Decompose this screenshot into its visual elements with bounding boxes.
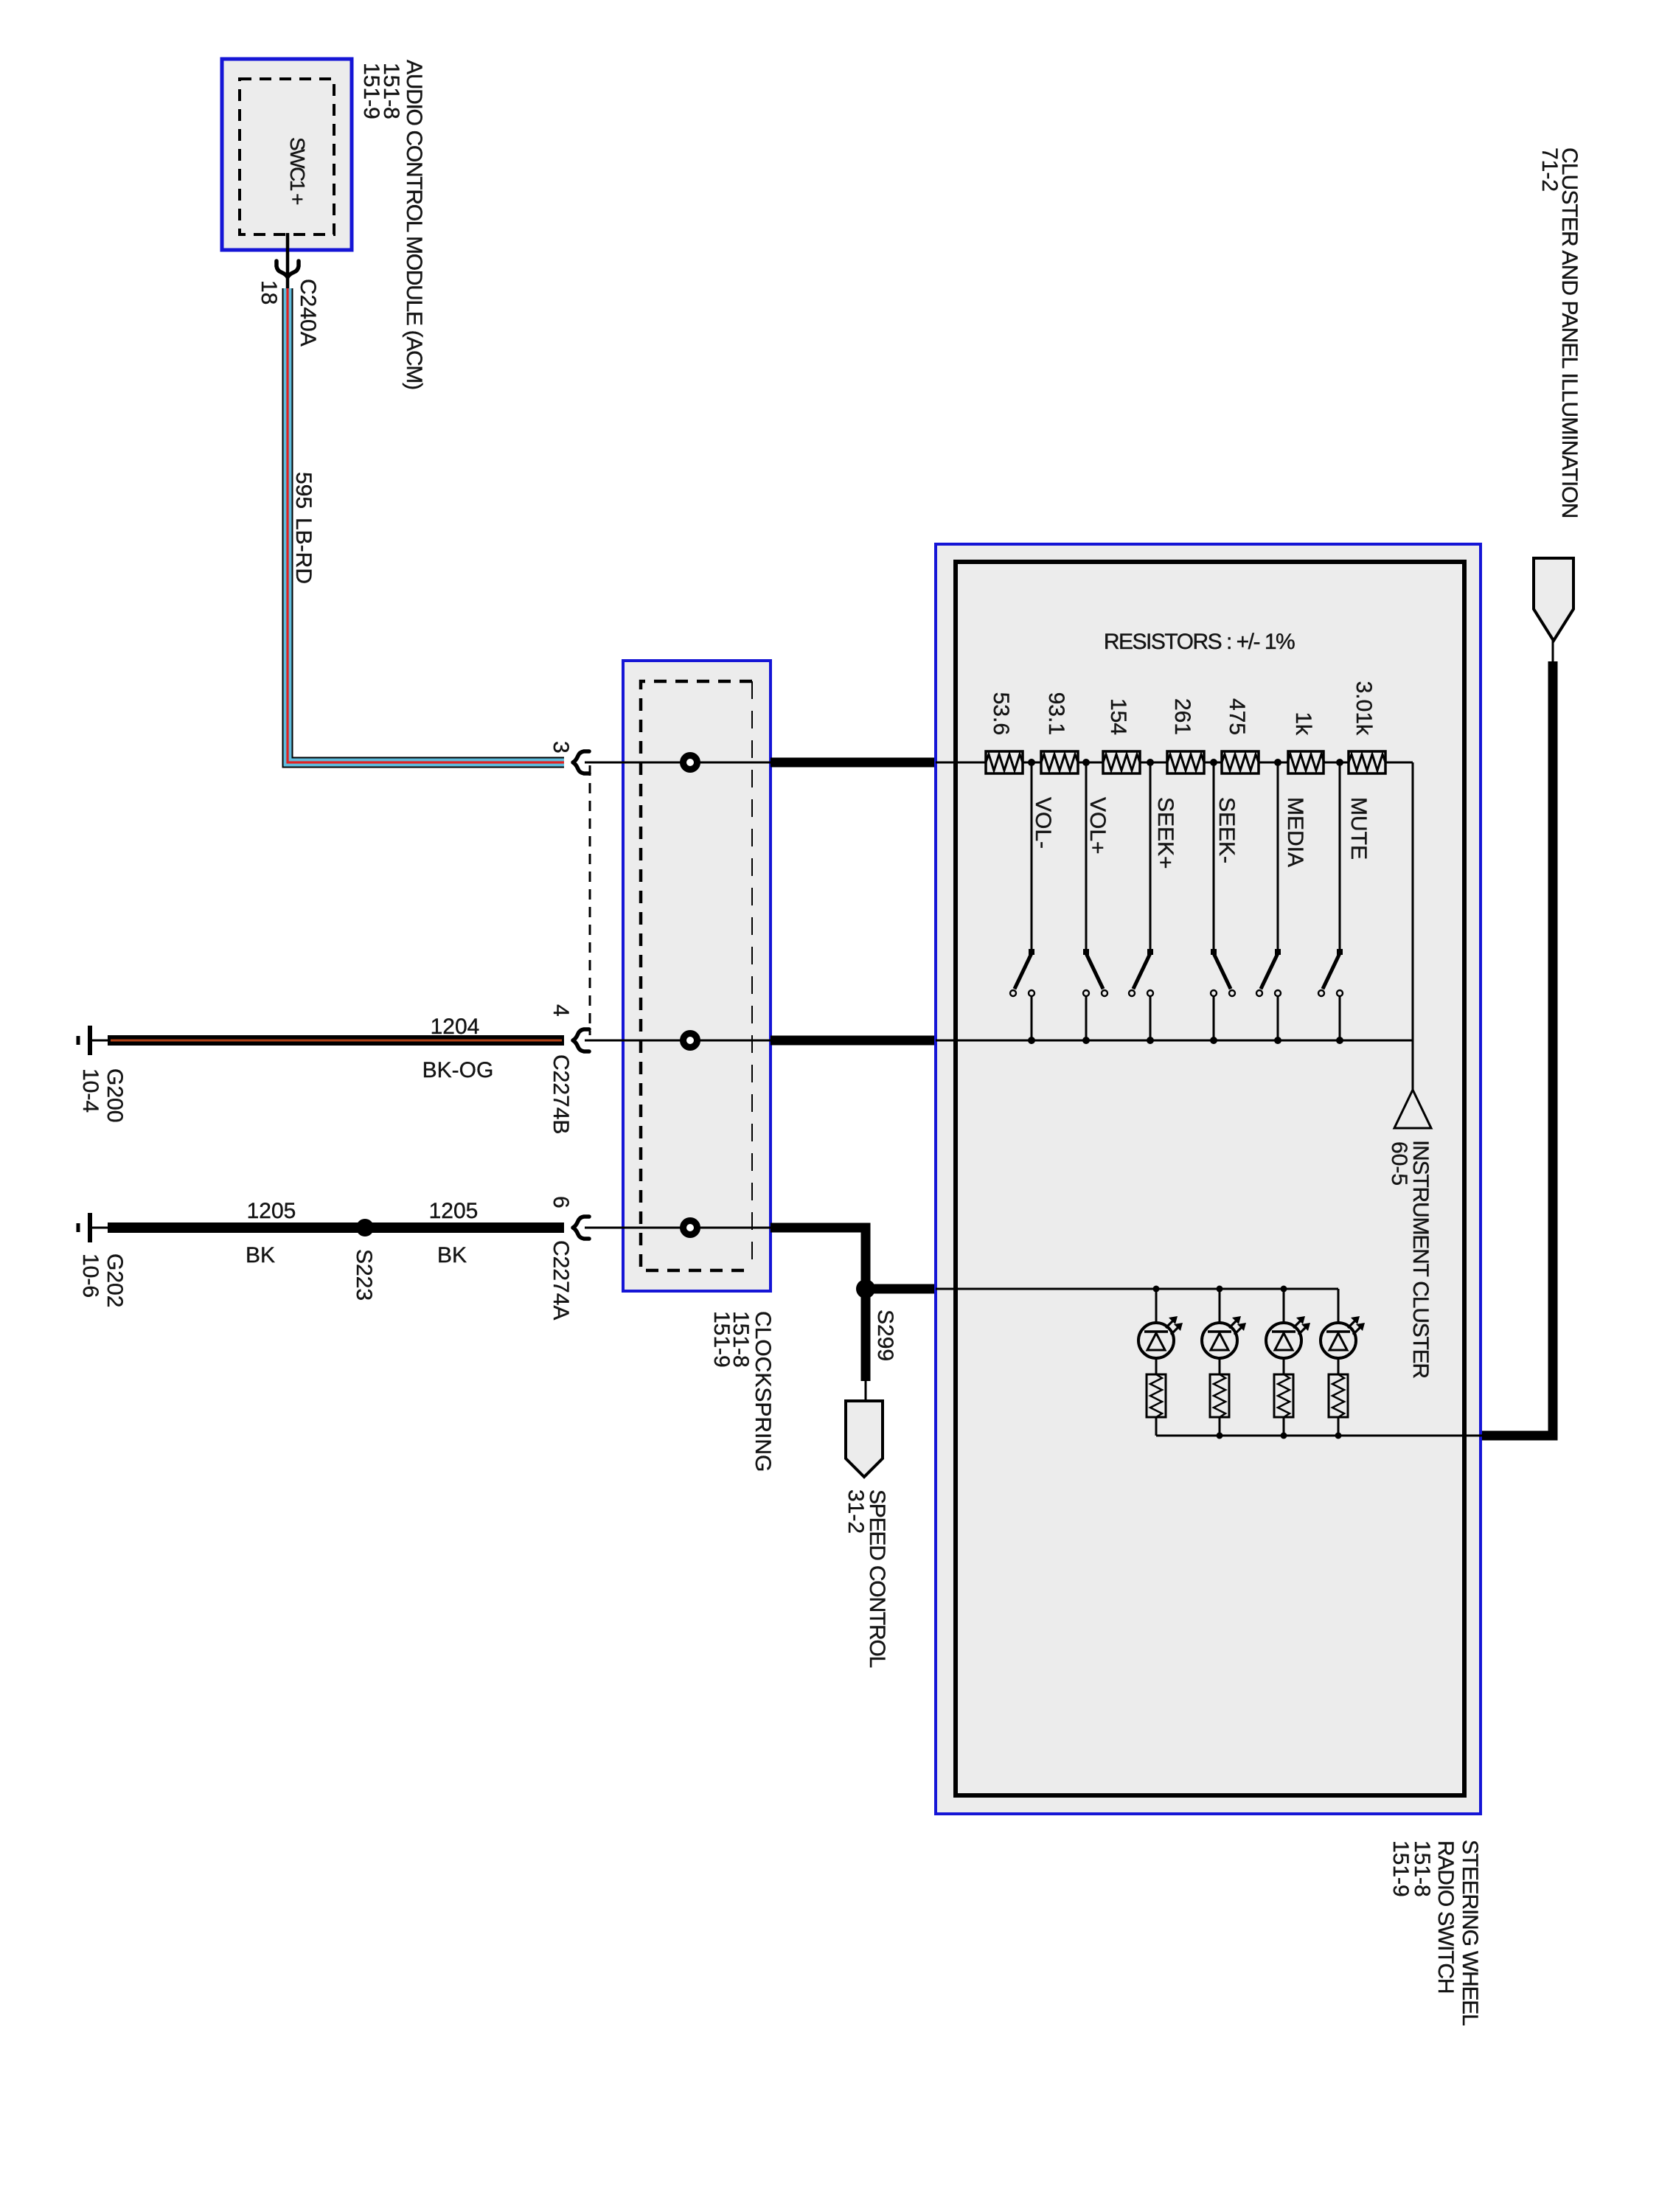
wire resistor chain top rail: [936, 762, 1413, 764]
off-page connector SPEED CONTROL: [846, 1401, 883, 1477]
wire bottom rail: [936, 1040, 1413, 1042]
steering wheel radio switch outer box: [936, 544, 1481, 1814]
svg-text:151-9: 151-9: [709, 1311, 734, 1368]
node LED rail junction: [1153, 1286, 1160, 1293]
resistor 53.6: [986, 751, 1023, 773]
ACM inner dashed connector box: [240, 79, 334, 234]
svg-text:SWC1 +: SWC1 +: [286, 137, 309, 204]
LED 4: [1321, 1289, 1365, 1374]
node LED rail junction: [1281, 1286, 1287, 1293]
clockspring box: [623, 661, 771, 1291]
svg-text:CLOCKSPRING: CLOCKSPRING: [751, 1311, 775, 1472]
clockspring contact bullet pin3: [684, 756, 698, 770]
svg-text:1205: 1205: [247, 1199, 296, 1223]
svg-text:1205: 1205: [429, 1199, 479, 1223]
dashed connector link line: [589, 765, 591, 1035]
svg-text:10-6: 10-6: [78, 1253, 102, 1298]
splice S299: [856, 1279, 875, 1298]
svg-text:STEERING WHEEL: STEERING WHEEL: [1458, 1840, 1482, 2025]
svg-text:S223: S223: [352, 1249, 376, 1301]
svg-text:1204: 1204: [431, 1015, 480, 1039]
svg-text:C240A: C240A: [296, 279, 320, 347]
wire pin4 thin segment into clockspring: [585, 1040, 773, 1042]
wire thick to cluster illumination: [1482, 661, 1553, 1436]
svg-text:MEDIA: MEDIA: [1283, 797, 1307, 867]
wire 595 LB-RD: [288, 288, 564, 762]
svg-text:261: 261: [1170, 698, 1194, 735]
svg-text:475: 475: [1225, 698, 1249, 735]
svg-text:AUDIO CONTROL MODULE (ACM): AUDIO CONTROL MODULE (ACM): [402, 60, 426, 389]
wire stub from ACM: [286, 233, 290, 288]
svg-text:53.6: 53.6: [989, 692, 1013, 735]
instrument cluster triangle: [1394, 1090, 1431, 1128]
wire 1204 BK-OG: [108, 1035, 564, 1046]
svg-text:VOL-: VOL-: [1031, 797, 1055, 849]
LED 3: [1266, 1289, 1310, 1374]
svg-text:RESISTORS : +/- 1%: RESISTORS : +/- 1%: [1104, 630, 1295, 654]
wire from S299 to radio switch: [866, 1284, 936, 1294]
ground G200: [78, 1026, 109, 1055]
svg-text:151-9: 151-9: [1388, 1840, 1413, 1897]
wire pin4 thick segment to radio switch: [771, 1036, 936, 1046]
node LED bottom junction: [1335, 1433, 1342, 1439]
switch SEEK-: [1210, 762, 1235, 1044]
svg-text:3.01k: 3.01k: [1352, 681, 1376, 736]
wire pin6 thick segment with corner down to S299: [771, 1228, 866, 1289]
wire pin6 thin segment into clockspring: [585, 1227, 773, 1229]
svg-text:BK: BK: [246, 1243, 275, 1267]
node tap 1: [1028, 759, 1035, 766]
resistor LED2: [1210, 1374, 1229, 1436]
off-page connector CLUSTER AND PANEL ILLUMINATION: [1534, 558, 1573, 641]
svg-text:595: 595: [291, 472, 316, 509]
module ACM box: [222, 59, 352, 250]
node LED bottom junction: [1281, 1433, 1287, 1439]
svg-text:RADIO SWITCH: RADIO SWITCH: [1433, 1840, 1458, 1993]
switch VOL+: [1082, 762, 1107, 1044]
clockspring inner dashed box: [641, 681, 752, 1270]
connector pin 4 brace: [573, 1029, 589, 1051]
svg-text:60-5: 60-5: [1387, 1141, 1411, 1186]
node LED rail junction: [1217, 1286, 1223, 1293]
switch SEEK+: [1129, 762, 1154, 1044]
wire LED bottom rail: [1156, 1435, 1484, 1437]
svg-text:SEEK-: SEEK-: [1214, 797, 1239, 863]
svg-text:C2274B: C2274B: [549, 1054, 573, 1134]
connector pin 3 brace: [573, 751, 589, 773]
node tap 3: [1147, 759, 1154, 766]
resistor 93.1: [1041, 751, 1078, 773]
connector pin 6 brace: [573, 1217, 589, 1239]
svg-text:3: 3: [549, 741, 573, 754]
wire right branch down to instrument cluster: [1412, 762, 1414, 1090]
svg-text:1k: 1k: [1291, 712, 1315, 736]
wire pin3 thin segment into clockspring: [585, 762, 773, 764]
svg-text:BK: BK: [437, 1243, 467, 1267]
node tap 2: [1082, 759, 1090, 766]
svg-text:6: 6: [549, 1196, 573, 1208]
svg-text:S299: S299: [873, 1310, 897, 1361]
svg-text:MUTE: MUTE: [1346, 797, 1371, 860]
svg-text:C2274A: C2274A: [549, 1240, 573, 1320]
switch MUTE: [1318, 762, 1343, 1044]
svg-text:4: 4: [549, 1004, 573, 1017]
svg-text:BK-OG: BK-OG: [422, 1058, 494, 1082]
LED 1: [1138, 1289, 1183, 1374]
switch VOL-: [1010, 762, 1035, 1044]
resistor 154: [1103, 751, 1140, 773]
resistor LED1: [1147, 1374, 1166, 1436]
node tap 4: [1210, 759, 1217, 766]
resistor LED3: [1274, 1374, 1293, 1436]
svg-text:LB-RD: LB-RD: [291, 518, 316, 584]
svg-text:10-4: 10-4: [78, 1068, 102, 1113]
resistor 475: [1222, 751, 1259, 773]
resistor 3.01k: [1349, 751, 1385, 773]
resistor 261: [1167, 751, 1204, 773]
wire from S299 down to speed control: [861, 1289, 871, 1381]
svg-text:CLUSTER AND PANEL ILLUMINATION: CLUSTER AND PANEL ILLUMINATION: [1557, 147, 1582, 518]
wire pin3 thick segment to radio switch: [771, 758, 936, 768]
svg-text:SEEK+: SEEK+: [1153, 797, 1178, 869]
splice S223: [356, 1219, 374, 1237]
clockspring contact bullet pin6: [684, 1221, 698, 1235]
svg-text:154: 154: [1106, 698, 1130, 735]
svg-text:93.1: 93.1: [1044, 692, 1068, 735]
wire 1205 BK left of splice: [108, 1222, 564, 1233]
svg-text:G202: G202: [102, 1253, 127, 1307]
node LED bottom junction: [1217, 1433, 1223, 1439]
resistor LED4: [1329, 1374, 1348, 1436]
radio switch inner black box: [956, 562, 1464, 1795]
svg-text:VOL+: VOL+: [1085, 797, 1110, 855]
resistor 1k: [1287, 751, 1324, 773]
node tap 5: [1274, 759, 1281, 766]
connector C240A brace: [276, 261, 299, 277]
svg-text:71-2: 71-2: [1537, 147, 1562, 192]
switch MEDIA: [1256, 762, 1281, 1044]
LED 2: [1202, 1289, 1246, 1374]
svg-text:G200: G200: [102, 1068, 127, 1122]
ground G202: [78, 1213, 109, 1242]
wire LED top rail: [936, 1288, 1338, 1290]
svg-text:18: 18: [257, 280, 281, 305]
node tap 6: [1336, 759, 1343, 766]
svg-text:151-9: 151-9: [359, 63, 383, 119]
svg-text:31-2: 31-2: [844, 1489, 868, 1534]
clockspring contact bullet pin4: [684, 1034, 698, 1048]
